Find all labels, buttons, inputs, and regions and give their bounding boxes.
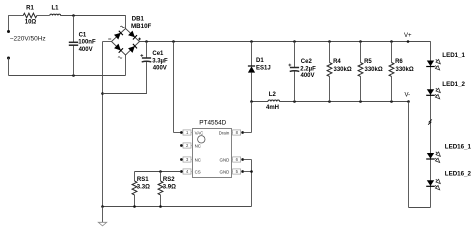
svg-text:100nF: 100nF	[78, 40, 96, 46]
junction node C1 top	[72, 14, 75, 17]
U1 pin name label GND	[220, 157, 230, 162]
bridge rectifier DB1 diamond outline	[112, 29, 140, 56]
diode D1 symbol	[248, 66, 255, 73]
svg-text:ES1J: ES1J	[256, 66, 271, 72]
junction node C1 bottom	[72, 74, 75, 77]
V- net label	[405, 93, 411, 99]
svg-text:RS1: RS1	[137, 177, 149, 183]
U1 name label PT4554D	[199, 119, 226, 126]
svg-text:400V: 400V	[79, 47, 93, 53]
LED LED16_1	[426, 152, 440, 163]
wire L2 to V- node	[279, 101, 408, 103]
svg-text:400V: 400V	[301, 73, 315, 79]
wire ground rail	[103, 206, 252, 208]
resistor RS1	[132, 181, 137, 195]
U1 pin name label GND	[220, 169, 230, 174]
U1 pin-1 indicator circle	[198, 136, 205, 143]
svg-text:V+: V+	[404, 33, 412, 39]
wire V- return column	[408, 102, 410, 208]
U1 pin name label VAC	[195, 130, 204, 135]
wire L1 to bridge top corner	[60, 15, 125, 28]
svg-text:LED16_2: LED16_2	[445, 171, 472, 178]
wire U1 GND pins to ground rail	[243, 160, 252, 207]
svg-text:L1: L1	[51, 6, 59, 12]
R5 labels R5 / 330kΩ	[364, 59, 383, 73]
svg-text:GND: GND	[220, 157, 230, 162]
svg-text:NC: NC	[195, 143, 201, 148]
DB1 AC mark bottom	[118, 57, 122, 59]
LED16_2 label	[445, 171, 472, 178]
svg-text:GND: GND	[220, 169, 230, 174]
LED1_1 label	[442, 52, 465, 59]
wire plus rail to U1 pin 1	[174, 42, 182, 133]
LED LED16_2	[426, 179, 440, 190]
L1 label	[51, 6, 59, 12]
junction dots on plus rail	[145, 40, 409, 43]
AC source terminal top	[7, 15, 10, 33]
R1 labels R1 / 10Ω	[25, 6, 37, 26]
resistor R1	[23, 13, 37, 18]
U1 pin name label NC	[195, 143, 201, 148]
LED LED1_1	[426, 59, 440, 70]
inductor L2	[268, 100, 280, 101]
resistor R5 leads	[360, 42, 362, 102]
junction dots ground rail	[101, 205, 162, 208]
svg-text:400V: 400V	[153, 65, 167, 71]
U1 pin 4 (CS)	[180, 169, 192, 174]
resistor R4	[327, 63, 332, 77]
svg-text:330kΩ: 330kΩ	[365, 67, 383, 73]
svg-text:RS2: RS2	[163, 177, 175, 183]
wire AC hot to R1	[9, 15, 24, 17]
svg-text:Ce1: Ce1	[152, 51, 164, 57]
DB1 plus mark right	[138, 38, 141, 41]
wire LED return bottom	[409, 207, 431, 209]
U1 pin 5 (GND)	[232, 169, 244, 174]
capacitor Ce2 plates	[290, 68, 300, 72]
U1 pin 1 (VAC)	[180, 130, 192, 135]
D1 labels D1 / ES1J	[256, 58, 271, 72]
svg-text:R1: R1	[26, 6, 34, 12]
svg-text:L2: L2	[269, 92, 277, 98]
U1 pin 8 (Drain)	[232, 130, 244, 135]
Ce1 labels Ce1 / 3.3µF / 400V	[152, 51, 168, 72]
DB1 AC mark top	[120, 26, 124, 28]
junction dots on V- rail	[250, 100, 410, 103]
svg-text:3.3Ω: 3.3Ω	[137, 185, 150, 191]
AC source label ~220V/50Hz	[10, 36, 46, 43]
svg-text:PT4554D: PT4554D	[199, 119, 226, 126]
L2 labels L2 / 4mH	[266, 92, 279, 111]
diode D1 lead bottom	[251, 73, 253, 102]
resistor RS1 leads	[134, 172, 136, 207]
svg-text:DB1: DB1	[132, 17, 145, 23]
R4 labels R4 / 330kΩ	[333, 59, 352, 73]
V+ net label	[404, 33, 412, 39]
svg-text:4mH: 4mH	[266, 105, 279, 111]
U1 pin 6 (GND)	[232, 157, 244, 162]
svg-text:2.2µF: 2.2µF	[300, 67, 316, 73]
C1 labels C1 / 100nF / 400V	[78, 32, 96, 53]
DB1 diode bottom-right (cathode right corner)	[128, 44, 137, 53]
capacitor C1 leads	[73, 16, 75, 76]
svg-text:3.9Ω: 3.9Ω	[163, 185, 176, 191]
ground symbol	[98, 222, 106, 226]
break mark LED chain	[428, 119, 432, 124]
op IC U1 body PT4554D	[193, 129, 232, 178]
svg-text:R6: R6	[395, 59, 403, 65]
resistor R5	[358, 63, 363, 77]
resistor RS2 leads	[160, 172, 162, 207]
svg-text:VAC: VAC	[195, 130, 204, 135]
resistor RS2	[158, 181, 163, 195]
DB1 labels DB1 / MB10F	[131, 17, 152, 31]
wire U1 drain to L2 node	[243, 102, 251, 133]
DB1 minus mark left	[108, 38, 111, 40]
RS2 labels RS2 / 3.9Ω	[163, 177, 176, 191]
resistor R4 leads	[329, 42, 331, 102]
wire ground stub	[102, 207, 104, 223]
resistor R6 leads	[391, 42, 393, 102]
wire plus rail bridge to V+ corner	[140, 41, 431, 43]
LED1_2 label	[442, 81, 465, 88]
capacitor Ce1 plates	[142, 58, 152, 62]
wire R1 to L1	[37, 15, 50, 17]
capacitor Ce1 leads	[103, 42, 147, 94]
DB1 diode left-bottom (anode left corner)	[114, 44, 123, 53]
U1 pin 2 (NC)	[180, 143, 192, 148]
svg-text:10Ω: 10Ω	[25, 20, 37, 26]
diode D1 lead top	[251, 42, 253, 67]
LED LED1_2	[426, 88, 440, 99]
wire CS net RS tops to U1 pin 4	[135, 170, 181, 173]
Ce2 plus mark	[288, 64, 291, 67]
wire LED column V+ to bottom	[430, 41, 432, 207]
Ce2 labels Ce2 / 2.2µF / 400V	[300, 59, 316, 79]
Ce1 plus mark	[140, 54, 143, 57]
svg-text:NC: NC	[195, 157, 201, 162]
svg-text:~220V/50Hz: ~220V/50Hz	[10, 36, 46, 43]
svg-text:R5: R5	[364, 59, 372, 65]
junction node Ce1 return	[101, 92, 104, 95]
U1 pin 3 (NC)	[180, 157, 192, 162]
svg-text:Drain: Drain	[219, 130, 230, 135]
AC source terminal bottom	[7, 57, 10, 76]
svg-text:R4: R4	[333, 59, 341, 65]
U1 pin name label NC	[195, 157, 201, 162]
inductor L1	[50, 14, 61, 15]
DB1 diode top-right (cathode right corner)	[128, 31, 137, 40]
svg-text:330kΩ: 330kΩ	[334, 67, 352, 73]
svg-text:330kΩ: 330kΩ	[396, 67, 414, 73]
svg-text:Ce2: Ce2	[301, 59, 313, 65]
svg-text:V-: V-	[405, 93, 411, 99]
R6 labels R6 / 330kΩ	[395, 59, 414, 73]
svg-text:3.3µF: 3.3µF	[152, 59, 168, 65]
wire D1 anode to L2	[252, 101, 269, 103]
svg-text:MB10F: MB10F	[131, 23, 152, 30]
svg-text:LED16_1: LED16_1	[445, 143, 472, 150]
wire bridge minus corner to ground column	[103, 42, 112, 207]
U1 pin name label CS	[195, 169, 201, 174]
svg-text:C1: C1	[79, 32, 87, 38]
DB1 diode left-top (anode left corner)	[114, 31, 123, 40]
wire AC neutral to bridge bottom corner	[9, 55, 126, 76]
capacitor C1 plates	[69, 42, 78, 45]
RS1 labels RS1 / 3.3Ω	[137, 177, 150, 191]
svg-text:LED1_1: LED1_1	[442, 52, 465, 59]
svg-text:D1: D1	[256, 58, 264, 64]
capacitor Ce2 leads	[294, 42, 296, 102]
svg-text:LED1_2: LED1_2	[442, 81, 465, 88]
U1 pin name label Drain	[219, 130, 230, 135]
svg-text:CS: CS	[195, 169, 201, 174]
LED16_1 label	[445, 143, 472, 150]
resistor R6	[389, 63, 394, 77]
